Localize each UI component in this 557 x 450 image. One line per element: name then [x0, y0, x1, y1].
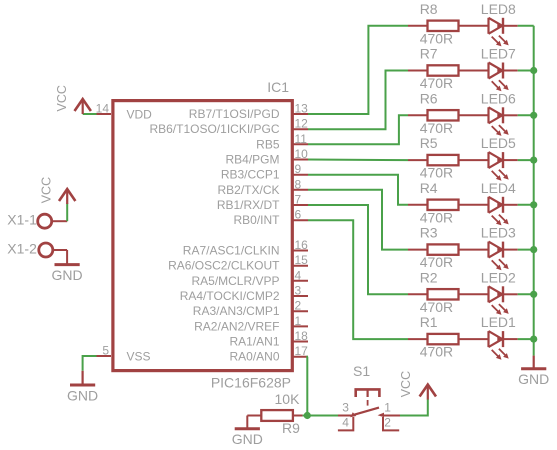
- svg-text:2: 2: [295, 299, 302, 313]
- svg-text:RA0/AN0: RA0/AN0: [229, 350, 279, 364]
- svg-text:12: 12: [295, 117, 309, 131]
- wire LED1 cathode to GND bus: [518, 338, 534, 340]
- wire LED4 cathode to GND bus: [518, 204, 534, 206]
- svg-text:R1: R1: [420, 314, 438, 330]
- svg-text:LED8: LED8: [481, 1, 516, 17]
- resistor R4 470R: [408, 180, 489, 226]
- svg-text:LED2: LED2: [481, 269, 516, 285]
- svg-text:470R: 470R: [420, 165, 453, 181]
- svg-text:RA2/AN2/VREF: RA2/AN2/VREF: [194, 319, 279, 333]
- svg-text:4: 4: [342, 416, 349, 430]
- wire VCC to pin 14: [83, 113, 97, 115]
- svg-text:GND: GND: [52, 267, 83, 283]
- svg-text:14: 14: [96, 102, 110, 116]
- wire LED7 cathode to GND bus: [518, 70, 534, 72]
- svg-text:GND: GND: [232, 431, 263, 447]
- svg-text:RB3/CCP1: RB3/CCP1: [221, 168, 280, 182]
- IC1 pin 5 VSS (left): [97, 344, 151, 364]
- svg-text:RA1/AN1: RA1/AN1: [229, 335, 279, 349]
- svg-text:S1: S1: [353, 363, 370, 379]
- svg-text:13: 13: [295, 102, 309, 116]
- svg-text:VCC: VCC: [55, 85, 69, 111]
- supply VCC symbol at pin 14: [75, 99, 91, 115]
- junction node LED7 row: [530, 67, 537, 74]
- wire LED5 cathode to GND bus: [518, 159, 534, 161]
- switch S1: [338, 363, 400, 430]
- wire LED2 cathode to GND bus: [518, 293, 534, 295]
- wire LED6 cathode to GND bus: [518, 114, 534, 116]
- svg-text:VCC: VCC: [39, 177, 53, 203]
- svg-text:RB4/PGM: RB4/PGM: [225, 153, 279, 167]
- IC1 pin 3 RA4/TOCKI/CMP2 (right): [180, 284, 308, 304]
- wire net from pin 12 to R7 row: [308, 71, 408, 130]
- svg-text:R7: R7: [420, 46, 438, 62]
- svg-text:470R: 470R: [420, 30, 453, 46]
- svg-text:GND: GND: [67, 387, 98, 403]
- IC1 pin 13 RB7/T1OSI/PGD (right): [189, 102, 308, 122]
- LED LED1: [481, 314, 518, 360]
- IC1 pin 7 RB1/RX/DT (right): [217, 193, 308, 213]
- svg-text:R8: R8: [420, 1, 438, 17]
- IC1 pin 4 RA5/MCLR/VPP (right): [191, 268, 308, 288]
- junction node LED4 row: [530, 201, 537, 208]
- wire X1-1 to VCC: [66, 203, 68, 221]
- ground GND symbol at R9: [232, 429, 263, 447]
- resistor R9 10K: [247, 391, 302, 436]
- svg-text:4: 4: [295, 268, 302, 282]
- svg-text:RB5: RB5: [256, 137, 280, 151]
- svg-text:3: 3: [342, 401, 349, 415]
- IC1 pin 15 RA6/OSC2/CLKOUT (right): [168, 253, 308, 273]
- svg-text:470R: 470R: [420, 344, 453, 360]
- IC U1 body: PIC16F628P IC1: [113, 79, 292, 391]
- svg-text:RB0/INT: RB0/INT: [233, 213, 280, 227]
- svg-text:VSS: VSS: [127, 350, 151, 364]
- supply VCC symbol at S1: [420, 384, 436, 400]
- svg-text:GND: GND: [518, 371, 549, 387]
- svg-text:10K: 10K: [275, 391, 301, 407]
- resistor R8 470R: [408, 1, 489, 47]
- resistor R2 470R: [408, 269, 489, 315]
- junction node LED2 row: [530, 291, 537, 298]
- svg-text:RA3/AN3/CMP1: RA3/AN3/CMP1: [193, 304, 280, 318]
- wire S1 pin1 to VCC: [400, 399, 428, 416]
- svg-text:VCC: VCC: [399, 371, 413, 397]
- resistor R1 470R: [408, 314, 489, 360]
- ground GND symbol left (VSS): [67, 385, 98, 403]
- LED LED4: [481, 180, 518, 226]
- IC1 pin 11 RB5 (right): [256, 132, 308, 152]
- svg-text:470R: 470R: [420, 75, 453, 91]
- supply VCC symbol at X1-1: [59, 189, 75, 205]
- svg-text:3: 3: [295, 284, 302, 298]
- LED LED5: [481, 135, 518, 181]
- svg-text:RA5/MCLR/VPP: RA5/MCLR/VPP: [191, 274, 279, 288]
- wire net from pin 6 to R1 row: [308, 220, 408, 339]
- svg-text:X1-1: X1-1: [7, 211, 37, 227]
- svg-text:470R: 470R: [420, 254, 453, 270]
- LED LED3: [481, 225, 518, 271]
- resistor R3 470R: [408, 225, 489, 271]
- svg-text:R3: R3: [420, 225, 438, 241]
- svg-text:RB6/T1OSO/1ICKI/PGC: RB6/T1OSO/1ICKI/PGC: [149, 122, 279, 136]
- wire net from pin 13 to R8 row: [308, 26, 408, 114]
- wire X1-2 to GND: [66, 250, 68, 264]
- svg-text:2: 2: [384, 416, 391, 430]
- IC1 pin 18 RA1/AN1 (right): [229, 329, 308, 349]
- wire net from pin 10 to R5 row: [308, 159, 408, 162]
- wire net from pin 11 to R6 row: [308, 115, 408, 144]
- svg-text:PIC16F628P: PIC16F628P: [211, 375, 291, 391]
- LED LED2: [481, 269, 518, 315]
- svg-text:470R: 470R: [420, 209, 453, 225]
- svg-text:7: 7: [295, 193, 302, 207]
- IC1 pin 8 RB2/TX/CK (right): [217, 177, 308, 197]
- wire LED8 cathode to GND bus: [518, 25, 534, 27]
- svg-text:LED6: LED6: [481, 90, 516, 106]
- IC1 pin 17 RA0/AN0 (right): [229, 344, 308, 364]
- svg-text:1: 1: [384, 401, 391, 415]
- wire pin 5 VSS to GND: [83, 356, 97, 371]
- wire GND bus vertical: [533, 26, 535, 356]
- svg-text:9: 9: [295, 162, 302, 176]
- junction node LED6 row: [530, 112, 537, 119]
- svg-text:LED3: LED3: [481, 225, 516, 241]
- svg-text:RB1/RX/DT: RB1/RX/DT: [217, 198, 280, 212]
- junction node LED5 row: [530, 157, 537, 164]
- wire R9 to junction: [303, 415, 308, 417]
- resistor R5 470R: [408, 135, 489, 181]
- IC1 pin 12 RB6/T1OSO/1ICKI/PGC (right): [149, 117, 308, 137]
- svg-text:R4: R4: [420, 180, 438, 196]
- svg-text:15: 15: [295, 253, 309, 267]
- svg-text:RA4/TOCKI/CMP2: RA4/TOCKI/CMP2: [180, 289, 280, 303]
- wire net from pin 9 to R4 row: [308, 175, 408, 205]
- ground GND symbol bus: [518, 369, 549, 387]
- junction node LED3 row: [530, 246, 537, 253]
- svg-text:LED5: LED5: [481, 135, 516, 151]
- svg-text:RA7/ASC1/CLKIN: RA7/ASC1/CLKIN: [183, 244, 280, 258]
- svg-text:LED4: LED4: [481, 180, 516, 196]
- svg-text:R5: R5: [420, 135, 438, 151]
- IC1 pin 1 RA2/AN2/VREF (right): [194, 314, 308, 334]
- svg-text:RB7/T1OSI/PGD: RB7/T1OSI/PGD: [189, 107, 280, 121]
- ground GND symbol at X1-2: [52, 265, 83, 283]
- wire junction to S1 pin 3: [307, 415, 338, 417]
- junction node LED1 row: [530, 336, 537, 343]
- resistor R6 470R: [408, 90, 489, 136]
- svg-text:18: 18: [295, 329, 309, 343]
- svg-text:R9: R9: [282, 420, 300, 436]
- svg-text:11: 11: [295, 132, 308, 146]
- IC1 pin 2 RA3/AN3/CMP1 (right): [193, 299, 308, 319]
- junction node R9/S1/pin17: [304, 412, 311, 419]
- IC1 pin 6 RB0/INT (right): [233, 208, 308, 228]
- svg-text:IC1: IC1: [267, 79, 289, 95]
- LED LED7: [481, 46, 518, 92]
- svg-text:8: 8: [295, 177, 302, 191]
- svg-text:16: 16: [295, 238, 309, 252]
- svg-text:LED7: LED7: [481, 46, 516, 62]
- svg-text:470R: 470R: [420, 299, 453, 315]
- wire R9 left to GND: [246, 416, 248, 429]
- svg-text:LED1: LED1: [481, 314, 516, 330]
- svg-text:R6: R6: [420, 90, 438, 106]
- svg-text:RB2/TX/CK: RB2/TX/CK: [217, 183, 279, 197]
- connector pin X1-1: [7, 211, 67, 228]
- IC1 pin 10 RB4/PGM (right): [225, 147, 308, 167]
- svg-text:6: 6: [295, 208, 302, 222]
- LED LED8: [481, 1, 518, 47]
- wire net from pin 7 to R2 row: [308, 205, 408, 294]
- svg-text:10: 10: [295, 147, 309, 161]
- svg-text:470R: 470R: [420, 120, 453, 136]
- svg-text:VDD: VDD: [127, 108, 153, 122]
- svg-text:17: 17: [295, 344, 309, 358]
- IC1 pin 9 RB3/CCP1 (right): [221, 162, 308, 182]
- wire LED3 cathode to GND bus: [518, 249, 534, 251]
- svg-text:X1-2: X1-2: [7, 240, 37, 256]
- svg-text:RA6/OSC2/CLKOUT: RA6/OSC2/CLKOUT: [168, 259, 280, 273]
- connector pin X1-2: [7, 240, 67, 257]
- svg-text:5: 5: [102, 344, 109, 358]
- wire net from pin 8 to R3 row: [308, 190, 408, 250]
- LED LED6: [481, 90, 518, 136]
- wire pin 17 RA0 to R9/S1 node: [306, 357, 309, 416]
- svg-text:R2: R2: [420, 269, 438, 285]
- resistor R7 470R: [408, 46, 489, 92]
- IC1 pin 16 RA7/ASC1/CLKIN (right): [183, 238, 308, 258]
- svg-text:1: 1: [295, 314, 302, 328]
- IC1 pin 14 VDD (left): [96, 102, 153, 122]
